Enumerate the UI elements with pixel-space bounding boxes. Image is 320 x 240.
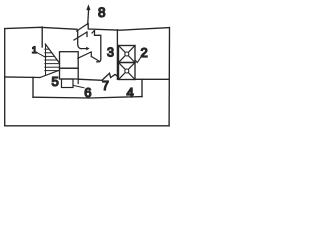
wire bottom (5, 125, 169, 127)
arrow exhaust-8 (87, 10, 90, 25)
wire stair-stringer (40, 70, 60, 77)
wire wall-x117 (116, 30, 118, 80)
wire ledge-floor1 (5, 76, 40, 79)
stove box-B tail (77, 79, 79, 84)
stove box C (62, 79, 74, 88)
svg-text:8: 8 (98, 5, 106, 20)
wire left-wall (4, 29, 6, 126)
wire wall-x42 (41, 27, 43, 47)
duct break-lower (74, 32, 87, 40)
wire roof-right (89, 28, 170, 31)
duct break-upper (77, 24, 89, 32)
duct flap-rise (78, 52, 92, 58)
wire leader-1 (37, 53, 46, 58)
fan F1 (119, 46, 136, 63)
wire roof-left (5, 27, 77, 29)
duct flap-fall (92, 57, 100, 62)
svg-text:6: 6 (84, 85, 91, 100)
arrow flow-in (80, 48, 86, 50)
svg-text:4: 4 (127, 85, 134, 100)
svg-text:1: 1 (32, 45, 37, 56)
duct stack-left-edge (78, 31, 81, 49)
stairs 1 (45, 44, 60, 75)
wire shelf-right (135, 78, 169, 80)
duct stack-right-tick (92, 31, 94, 33)
svg-text:7: 7 (102, 79, 109, 93)
wire leader-6 (73, 85, 84, 87)
stove box A (60, 52, 79, 68)
wire wall-x33 (32, 77, 34, 97)
stove box B (60, 68, 79, 79)
wire duct4-riser (141, 79, 143, 96)
svg-text:3: 3 (107, 46, 114, 60)
fan F2 (119, 63, 136, 80)
wire floor2 (33, 97, 142, 98)
svg-text:5: 5 (52, 74, 59, 89)
wire right-wall (168, 28, 170, 126)
wire duct7-top (78, 73, 117, 80)
duct right-edge (95, 31, 101, 62)
svg-text:2: 2 (141, 45, 148, 60)
wire leader-2 (135, 57, 141, 62)
